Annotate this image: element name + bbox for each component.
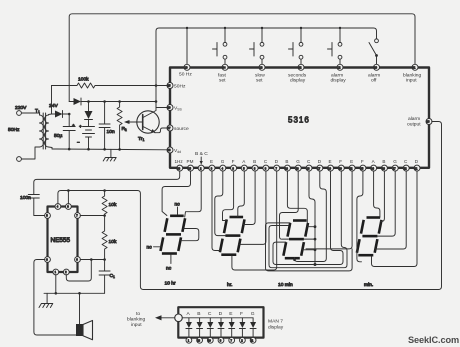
svg-text:NE555: NE555 [51,237,71,244]
top pins of 5316 [184,64,418,70]
wire 1Hz line pin30 to NE555 [34,171,180,194]
wire 100k tap [51,86,53,115]
pin 15 PM [188,165,194,171]
pin 19 E [328,165,334,171]
MAN7 label [268,319,284,331]
ground rail 555 [44,292,105,294]
pin 29 VSS [167,105,173,111]
NE555 pin 5 [45,213,51,219]
speaker LS1 [76,324,83,336]
ground rail supply [49,147,168,150]
MAN7 diode F [239,318,245,338]
pin 31 blanking input [412,64,418,70]
pin 4 G [220,165,226,171]
ground symbol 555 [39,293,53,307]
wire pin D hr [232,171,277,270]
NE555 pin 4 [55,204,61,210]
NE555 pin 3 [45,257,51,263]
pin 23 B [381,165,387,171]
pin 3 F [231,165,237,171]
svg-text:alarm: alarm [408,116,420,122]
svg-text:nc: nc [147,246,153,251]
wire pin G 10min [280,171,299,239]
wire pin3 to speaker [34,260,76,336]
MAN7 diode E [229,318,235,338]
wire pin E min [306,171,352,249]
MAN7 diode B [197,318,203,338]
NE555 pin 7 [75,213,81,219]
wire pin C 10min [309,171,315,265]
MAN7 bus [182,317,253,319]
wire pin B hr [243,171,255,225]
switch fast set [224,28,226,42]
switch alarm off toggle [375,39,379,43]
node dot D1 out [68,113,71,116]
pin 20 alarm off [374,64,380,70]
pin 22 E [349,165,355,171]
pin 14 fast set [222,64,228,70]
wire emitter to source pin [155,128,167,133]
svg-text:set: set [219,78,226,84]
blanking node circle [175,314,183,322]
svg-text:10k: 10k [109,202,117,208]
svg-text:B & C: B & C [195,151,208,157]
wire pin C hr [239,171,266,245]
pin 17 D [317,165,323,171]
wire pin D 10min [295,171,327,262]
MAN7 pin 7 [229,337,235,343]
pin 25 50Hz [167,83,173,89]
svg-text:B: B [285,159,288,164]
MAN7 diode D [218,318,224,338]
svg-text:10k: 10k [109,239,117,245]
svg-text:B: B [253,159,256,164]
wire Vss [156,107,167,109]
wire pin G min [377,171,395,236]
NE555 body [48,207,78,273]
NE555 pin 8 [66,204,72,210]
svg-text:G: G [296,159,300,164]
arrow to blanking input [160,317,175,319]
svg-text:hr.: hr. [227,282,232,288]
right pin alarm output [426,119,432,125]
MAN7 pin 8 [218,337,224,343]
svg-text:G: G [251,311,255,317]
svg-text:C: C [208,311,212,317]
pin 27 source [167,125,173,131]
svg-text:E: E [329,159,332,164]
pin 35 F [360,165,366,171]
zener diode backup [88,102,90,112]
wire pin G hr [215,171,225,236]
pin 12 alarm display [337,64,343,70]
svg-text:5316: 5316 [288,116,310,125]
svg-text:output: output [407,122,421,128]
svg-text:blanking: blanking [127,317,145,323]
svg-text:input: input [131,322,142,328]
svg-text:1Hz: 1Hz [175,159,184,164]
wire primary bottom [21,147,39,159]
node dots on D2 line [87,100,90,103]
wire 555 supply pins 4 8 [58,191,105,205]
diode D2 [74,98,82,105]
wire pin PM route [162,171,190,216]
terminal 50Hz mains [17,157,22,162]
terminal 220V [17,111,22,116]
svg-text:off: off [371,78,377,84]
wire inner switch rail [156,28,377,108]
display 10min digit [283,221,308,259]
pin 9 E [209,165,215,171]
pin 30 1Hz [177,165,183,171]
pin 18 G [295,165,301,171]
NE555 pin 1 [53,269,59,275]
MAN7 pin 11 [250,337,256,343]
svg-text:display: display [331,78,347,84]
MAN7 pin 13 [197,337,203,343]
MAN7 pins [186,337,256,343]
svg-text:nc: nc [166,267,172,272]
svg-text:10 hr: 10 hr [165,281,177,287]
pin 22 C [403,165,409,171]
pin 8 C [263,165,269,171]
svg-text:input: input [406,78,417,84]
svg-text:G: G [221,159,225,164]
display min digit [357,218,382,256]
MAN7 diode C [207,318,213,338]
svg-text:min.: min. [364,282,373,288]
wire primary top [21,113,39,115]
pin 21 D [414,165,420,171]
svg-text:100k: 100k [78,77,89,83]
MAN7 pin 2 [240,337,246,343]
wire pin C min [375,171,406,249]
svg-text:10 min: 10 min [278,282,293,288]
MAN7 segment letters [187,311,255,317]
wire outer top rail to blanking input [69,14,415,102]
svg-text:F: F [339,159,342,164]
svg-text:F: F [240,311,243,317]
svg-text:F: F [361,159,364,164]
wire pin6 junction [80,259,104,261]
MAN7 board box [178,307,263,337]
switch slow set [261,28,263,42]
svg-text:F: F [232,159,235,164]
pin 28 VDD [167,147,173,153]
svg-text:B: B [382,159,385,164]
display 10hr digit [161,216,186,254]
svg-text:−: − [77,141,80,146]
node dot rail cross 50Hz [155,84,158,87]
svg-text:G: G [393,159,397,164]
NE555 pin 2 [63,269,69,275]
wire pin2 to pin6 [66,260,91,282]
wire speaker to ground rail [79,293,81,324]
svg-text:to: to [136,311,140,317]
left pins of 5316 [167,83,173,154]
wire secondary top to D1 [49,113,56,116]
switch alarm display [339,28,341,42]
transistor Tr1 [137,111,159,133]
wire pin A min [374,171,380,218]
ground symbol supply [103,149,116,161]
svg-text:50Hz: 50Hz [8,127,20,133]
bottom pins of 5316 [177,165,420,171]
svg-text:display: display [290,78,306,84]
wire pin F hr [223,171,234,221]
svg-text:E: E [210,159,213,164]
pin 10 50Hz input [184,64,190,70]
B and C label with arrow [195,151,208,157]
wire pin B and C to digit [185,171,202,217]
pin 2 B&C [198,165,204,171]
wire pin E 10min nested U [273,171,343,265]
wire B C tie hook 10hr [180,229,199,241]
wire pin1 to ground rail [55,275,57,294]
top pin labels [179,72,421,84]
pin 16 C [306,165,312,171]
svg-text:D: D [219,311,223,317]
MAN7 diode G [250,318,256,338]
svg-text:B: B [197,311,200,317]
wire pin F 10min nested U [269,171,347,268]
svg-text:50 Hz: 50 Hz [179,72,192,78]
svg-text:E: E [350,159,353,164]
pin 5 A [241,165,247,171]
svg-text:MAN 7: MAN 7 [268,319,283,325]
svg-text:+: + [79,125,82,130]
pin 10 riser [186,28,188,65]
switch seconds display [300,28,302,42]
bottom pin segment letters [175,159,419,164]
svg-text:source: source [174,126,189,132]
svg-text:220V: 220V [15,105,27,111]
svg-text:set: set [256,78,263,84]
pin 7 D [274,165,280,171]
svg-text:24V: 24V [49,103,58,109]
MAN7 pin 1 [186,337,192,343]
wire pin A hr [238,171,245,217]
wiper arrow Rk [127,121,143,123]
wire pin D min [372,171,418,267]
IC 5316 body [170,68,429,168]
pin 17 G [392,165,398,171]
wire outer loop under 10min [266,223,353,271]
display hr digit [220,217,245,255]
pin 6 B [252,165,258,171]
svg-text:10n: 10n [107,129,115,135]
svg-text:display: display [268,325,284,331]
MAN7 pin 10 [207,337,213,343]
MAN7 diode A [186,318,192,338]
pin 24 A [371,165,377,171]
wire pin B min [381,171,385,222]
node dot rail at D2 node [155,100,158,103]
NE555 pin 6 [75,257,81,263]
alarm loop wire [105,122,442,290]
svg-text:50µ: 50µ [54,133,62,139]
svg-text:PM: PM [187,159,194,164]
wire pin E hr [212,171,220,251]
pin 13 B [284,165,290,171]
pin 32 seconds display [298,64,304,70]
svg-text:50Hz: 50Hz [174,84,186,90]
pin 13 slow set [259,64,265,70]
pin 20 F [338,165,344,171]
wire D2 row [69,101,73,103]
wire pin B 10min [287,171,307,223]
wire pin F min [357,171,363,262]
svg-text:SeekIC.com: SeekIC.com [408,335,459,345]
wire pin7 to divider [80,215,104,217]
